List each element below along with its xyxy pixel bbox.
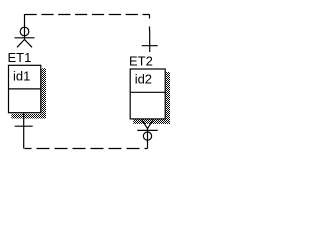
cross terminal bottom-left — [15, 113, 33, 149]
svg-text:id1: id1 — [13, 69, 30, 84]
source symbol (actor figure) top-left — [15, 14, 35, 47]
box ET2 shadow — [166, 72, 170, 124]
box ET2 (id2) — [130, 69, 165, 119]
svg-text:id2: id2 — [135, 72, 152, 87]
load symbol (inverted actor figure) bottom-right — [137, 119, 157, 148]
cross terminal top-right — [142, 30, 158, 52]
svg-text:ET1: ET1 — [8, 50, 32, 65]
wire dashed frame bottom edge — [25, 148, 148, 150]
wire dashed frame top edge — [25, 14, 150, 16]
box ET1 shadow — [41, 68, 46, 118]
svg-text:ET2: ET2 — [129, 54, 153, 69]
wire dashed frame right edge upper — [149, 15, 151, 33]
box ET1 (id1) — [9, 65, 41, 112]
